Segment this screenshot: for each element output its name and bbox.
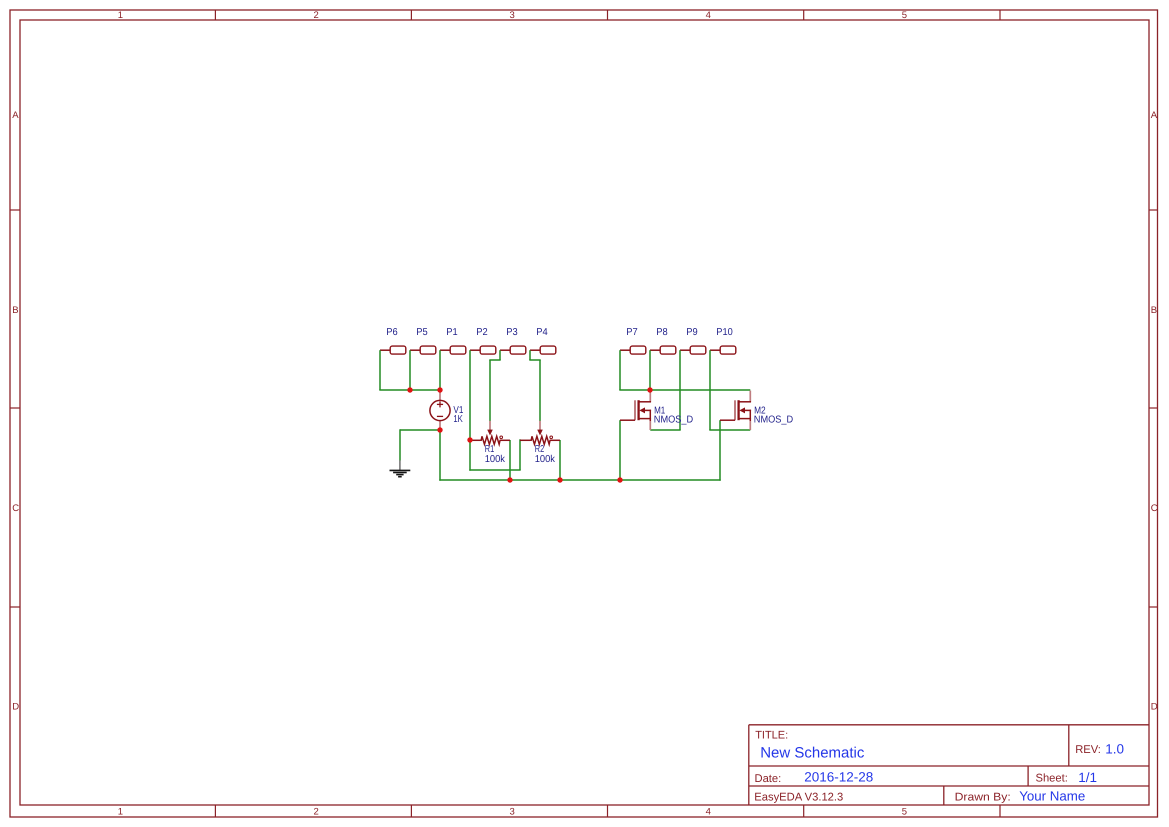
junction at 410,390 xyxy=(407,387,412,392)
svg-text:New Schematic: New Schematic xyxy=(760,744,865,761)
wire ground drop xyxy=(399,429,401,460)
junction at 650,390 xyxy=(647,387,652,392)
pin P5 xyxy=(410,327,436,354)
wire right bus P7-M2 drain xyxy=(619,389,750,391)
pin P7 xyxy=(620,327,646,354)
junction at 440,390 xyxy=(437,387,442,392)
svg-text:1K: 1K xyxy=(453,414,463,425)
svg-text:4: 4 xyxy=(706,807,711,818)
svg-text:P7: P7 xyxy=(626,327,638,338)
pin P1 xyxy=(440,327,466,354)
wire R1 right down to bus xyxy=(509,440,511,480)
svg-text:TITLE:: TITLE: xyxy=(755,730,788,742)
wire P4 down xyxy=(529,350,531,360)
svg-text:P9: P9 xyxy=(686,327,698,338)
junction at 440,430 xyxy=(437,427,442,432)
svg-text:5: 5 xyxy=(902,807,907,818)
svg-text:1/1: 1/1 xyxy=(1078,770,1097,785)
svg-text:3: 3 xyxy=(510,807,515,818)
svg-text:2: 2 xyxy=(314,10,319,21)
svg-text:100k: 100k xyxy=(535,454,556,465)
junction at 620,480 xyxy=(617,477,622,482)
pin P6 xyxy=(380,327,406,354)
svg-text:C: C xyxy=(1151,503,1158,514)
svg-text:P5: P5 xyxy=(416,327,428,338)
wire P4 to R2 wiper xyxy=(539,360,541,421)
wire P4 jog right xyxy=(529,359,540,361)
pin P4 xyxy=(530,327,556,354)
svg-text:P10: P10 xyxy=(716,327,733,338)
svg-text:B: B xyxy=(1151,305,1157,316)
svg-text:B: B xyxy=(12,305,18,316)
svg-text:C: C xyxy=(12,503,19,514)
ground xyxy=(390,460,411,476)
svg-text:1: 1 xyxy=(118,10,123,21)
wire P1 down xyxy=(439,350,441,390)
svg-text:Date:: Date: xyxy=(755,773,782,785)
svg-text:Your Name: Your Name xyxy=(1019,789,1085,804)
svg-text:Drawn By:: Drawn By: xyxy=(955,791,1011,803)
wire P3 to R1 wiper xyxy=(489,360,491,421)
svg-text:2016-12-28: 2016-12-28 xyxy=(804,770,873,785)
wire M2 source link xyxy=(709,429,750,431)
pin P2 xyxy=(470,327,496,354)
svg-text:D: D xyxy=(12,702,19,713)
wire R2 right down to bus xyxy=(559,440,561,480)
svg-text:P6: P6 xyxy=(386,327,398,338)
svg-text:D: D xyxy=(1151,702,1158,713)
potentiometer R1 xyxy=(470,421,510,465)
wire P8 down to M1 drain xyxy=(649,350,651,390)
svg-text:P8: P8 xyxy=(656,327,668,338)
svg-text:1.0: 1.0 xyxy=(1105,741,1124,756)
wire P10 down xyxy=(709,350,711,430)
pin P3 xyxy=(500,327,526,354)
wire top bus P6-V1 xyxy=(379,389,440,391)
transistor M2 xyxy=(720,391,793,430)
wire P7 down xyxy=(619,350,621,390)
junction at 560,480 xyxy=(557,477,562,482)
pin P9 xyxy=(680,327,706,354)
svg-text:100k: 100k xyxy=(485,454,506,465)
wire P5 down xyxy=(409,350,411,390)
svg-text:A: A xyxy=(1151,110,1158,121)
wire P6 down xyxy=(379,350,381,390)
svg-text:A: A xyxy=(12,110,19,121)
svg-text:P2: P2 xyxy=(476,327,488,338)
wire M1 gate down to bus xyxy=(619,420,621,480)
svg-text:5: 5 xyxy=(902,10,907,21)
svg-text:2: 2 xyxy=(314,807,319,818)
svg-text:1: 1 xyxy=(118,807,123,818)
title block xyxy=(749,725,1149,805)
wire M1 source link xyxy=(650,429,680,431)
svg-text:Sheet:: Sheet: xyxy=(1036,773,1068,785)
wire bottom bus xyxy=(439,479,720,481)
svg-text:3: 3 xyxy=(510,10,515,21)
potentiometer R2 xyxy=(520,421,560,465)
svg-text:P1: P1 xyxy=(446,327,458,338)
wire M2 gate down to bus xyxy=(719,420,721,481)
pin P8 xyxy=(650,327,676,354)
pin P10 xyxy=(710,327,736,354)
svg-text:P4: P4 xyxy=(536,327,548,338)
wire P2 down to R1 xyxy=(469,350,471,471)
svg-text:REV:: REV: xyxy=(1075,744,1101,756)
wire V1 minus to ground node xyxy=(400,429,438,431)
svg-text:EasyEDA V3.12.3: EasyEDA V3.12.3 xyxy=(754,792,843,804)
wire P3 down xyxy=(499,350,501,360)
wire P9 down xyxy=(679,350,681,430)
junction at 510,480 xyxy=(507,477,512,482)
svg-text:NMOS_D: NMOS_D xyxy=(754,415,793,426)
wire V1 to bottom bus xyxy=(439,430,441,481)
svg-text:NMOS_D: NMOS_D xyxy=(654,415,693,426)
svg-text:P3: P3 xyxy=(506,327,518,338)
svg-text:4: 4 xyxy=(706,10,711,21)
wire link up to R2 left xyxy=(519,439,521,470)
wire R1 left to R2 left bottom link xyxy=(469,469,520,471)
transistor M1 xyxy=(620,391,693,430)
voltage source V1 xyxy=(430,390,464,430)
wire P3 jog left xyxy=(489,359,500,361)
junction at 470,440 xyxy=(467,437,472,442)
